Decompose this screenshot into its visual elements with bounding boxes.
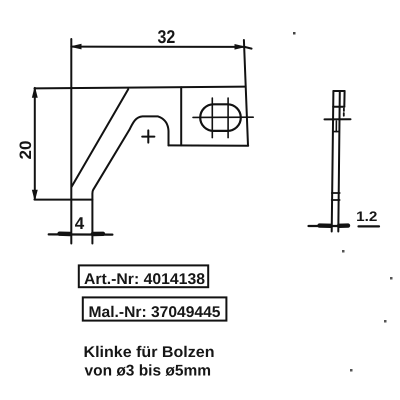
arrow dash right of dim 4 — [93, 232, 103, 237]
side view tick lower (foot bend) — [332, 199, 340, 201]
side view top edge — [333, 90, 344, 92]
internal bend line (diagonal) — [72, 89, 129, 187]
internal vertical edge of hole block — [180, 87, 182, 145]
dimension line 1.2 (left part with arrows) — [309, 225, 349, 227]
side view flange right edge — [343, 91, 345, 107]
dimension line 32 — [71, 47, 251, 49]
box Art.-Nr — [79, 265, 208, 287]
front view right edge / 32-dim extension line — [244, 40, 248, 146]
arrowhead left of dim 32 — [72, 44, 81, 48]
arrowhead right of dim 32 — [235, 45, 244, 49]
arrow dash left of dim 4 — [60, 231, 71, 236]
slot right arc centerline — [227, 98, 229, 138]
side view tick at inner vertical bottom — [333, 131, 339, 133]
nose hump and hooked outline with diagonal leg edge — [92, 116, 168, 243]
side view right edge — [338, 91, 340, 232]
side view tick upper (foot bend) — [332, 192, 340, 194]
front view top edge (with 20-dim extension to the left) — [35, 87, 246, 89]
arrowhead top of dim 20 — [33, 88, 38, 97]
svg-text:20: 20 — [17, 141, 35, 160]
slot left arc centerline — [211, 98, 213, 138]
svg-text:32: 32 — [158, 26, 176, 47]
svg-text:von ø3 bis ø5mm: von ø3 bis ø5mm — [85, 363, 212, 380]
stray scan dot 1 — [293, 32, 296, 35]
slot horizontal centerline — [193, 116, 253, 118]
box Mal.-Nr — [83, 297, 227, 320]
side view crossing line — [325, 118, 351, 120]
stray scan dot 3 — [390, 277, 393, 280]
side view left edge — [332, 91, 334, 232]
center mark plus on nose — [142, 130, 154, 142]
dimension line 1.2 right dash under label — [359, 225, 380, 227]
bottom edge of hole block — [168, 144, 248, 146]
arrowhead bottom of dim 20 — [33, 190, 38, 199]
stray scan dot 4 — [384, 320, 387, 323]
arrow dash left of dim 1.2 — [320, 223, 331, 228]
side view flange bottom edge — [333, 106, 344, 108]
svg-text:Art.-Nr: 4014138: Art.-Nr: 4014138 — [84, 271, 205, 288]
front view left edge / 32-dim extension line — [70, 39, 72, 244]
svg-text:1.2: 1.2 — [356, 209, 378, 224]
svg-text:Mal.-Nr: 37049445: Mal.-Nr: 37049445 — [89, 304, 221, 321]
dimension line 4 (bottom, doubles as foot bottom) — [49, 233, 113, 235]
stray scan dot 5 — [350, 369, 353, 372]
arrow dash right of dim 1.2 — [339, 223, 348, 228]
side view short inner vertical — [335, 121, 337, 132]
svg-text:Klinke für Bolzen: Klinke für Bolzen — [84, 344, 215, 361]
side view right nub dashes — [343, 109, 345, 116]
bottom edge at 20-dim / foot top (extension line) — [35, 199, 93, 201]
stray scan dot 2 — [342, 250, 345, 253]
svg-text:4: 4 — [75, 214, 85, 233]
slot hole (obround) — [200, 104, 241, 131]
dimension line 20 (vertical, left) — [34, 88, 36, 200]
